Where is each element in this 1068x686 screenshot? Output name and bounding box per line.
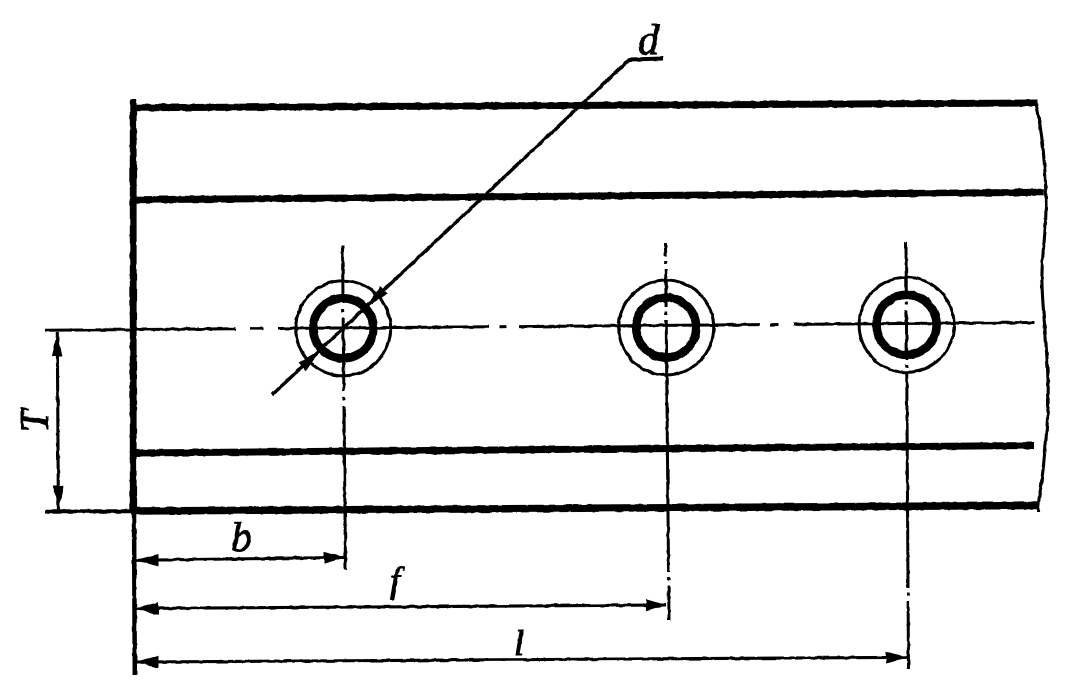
leader line for d — [272, 59, 630, 395]
hole 3 outer circle — [859, 277, 954, 372]
hole 3 inner circle — [877, 295, 937, 355]
arrow b right — [324, 551, 345, 563]
hole 3 vertical centerline — [906, 242, 909, 671]
arrow T up — [52, 332, 62, 357]
leader underline under d — [629, 59, 663, 60]
bottom edge extension line (left) — [45, 509, 135, 513]
arrowhead lower-left on hole 1 — [299, 349, 322, 371]
bar right broken (wavy) edge — [1036, 104, 1048, 512]
svg-text:d: d — [638, 18, 660, 64]
bar lower inner edge line — [131, 446, 1034, 454]
svg-text:f: f — [390, 560, 405, 600]
hole 2 inner circle — [636, 298, 696, 358]
arrow b left — [135, 554, 159, 566]
left extension line below bar — [132, 511, 137, 675]
arrow l left — [135, 656, 159, 668]
horizontal centerline (dash-dot) — [45, 323, 1035, 331]
arrow T down — [53, 486, 63, 511]
dimension line f — [136, 605, 666, 609]
svg-text:T: T — [12, 407, 57, 432]
hole 1 outer circle — [296, 281, 391, 376]
bar second edge line — [131, 192, 1044, 200]
arrow f right — [646, 599, 667, 611]
bar left edge — [130, 99, 137, 513]
bar top edge — [131, 103, 1037, 108]
hole 2 outer circle — [619, 280, 714, 375]
arrow l right — [886, 651, 907, 663]
hole 2 vertical centerline — [666, 243, 670, 620]
hole 1 vertical centerline — [343, 245, 346, 570]
bar bottom edge — [135, 506, 1037, 512]
dimension line b — [136, 557, 345, 560]
arrow f left — [135, 602, 159, 614]
arrowhead upper-right on hole 1 — [365, 286, 388, 308]
dimension line l — [136, 657, 907, 662]
svg-text:b: b — [231, 515, 252, 561]
dimension line T (vertical, left) — [57, 332, 58, 510]
hole 1 inner circle — [313, 298, 373, 358]
svg-text:l: l — [514, 623, 524, 663]
